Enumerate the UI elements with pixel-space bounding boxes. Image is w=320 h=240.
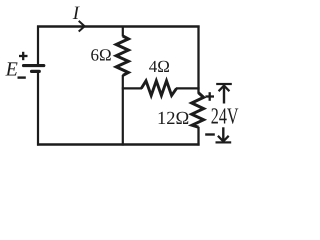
wire left upper	[37, 26, 39, 65]
plus 12ohm	[205, 92, 214, 101]
wire right upper	[197, 26, 199, 94]
resistor 12ohm	[192, 93, 204, 127]
wire bottom	[37, 143, 200, 146]
wire right lower	[197, 127, 199, 146]
svg-text:24V: 24V	[211, 104, 239, 129]
battery E	[24, 66, 44, 72]
voltage arrow down to bar	[216, 127, 232, 142]
battery minus	[18, 76, 26, 78]
current arrow I head	[79, 21, 85, 32]
svg-text:4Ω: 4Ω	[149, 57, 170, 76]
svg-text:6Ω: 6Ω	[91, 45, 112, 64]
svg-text:E: E	[5, 59, 18, 81]
wire middle lower	[122, 75, 124, 146]
resistor 4ohm	[141, 81, 176, 96]
wire 4ohm right lead	[176, 87, 200, 89]
minus 12ohm	[205, 133, 215, 135]
svg-text:12Ω: 12Ω	[157, 109, 189, 129]
resistor 6ohm	[116, 36, 128, 75]
voltage arrow up to bar	[216, 84, 232, 104]
battery plus	[19, 52, 28, 60]
wire left lower	[37, 73, 39, 146]
wire 4ohm left lead	[122, 87, 142, 89]
wire top	[37, 25, 200, 27]
wire middle upper	[122, 26, 124, 37]
